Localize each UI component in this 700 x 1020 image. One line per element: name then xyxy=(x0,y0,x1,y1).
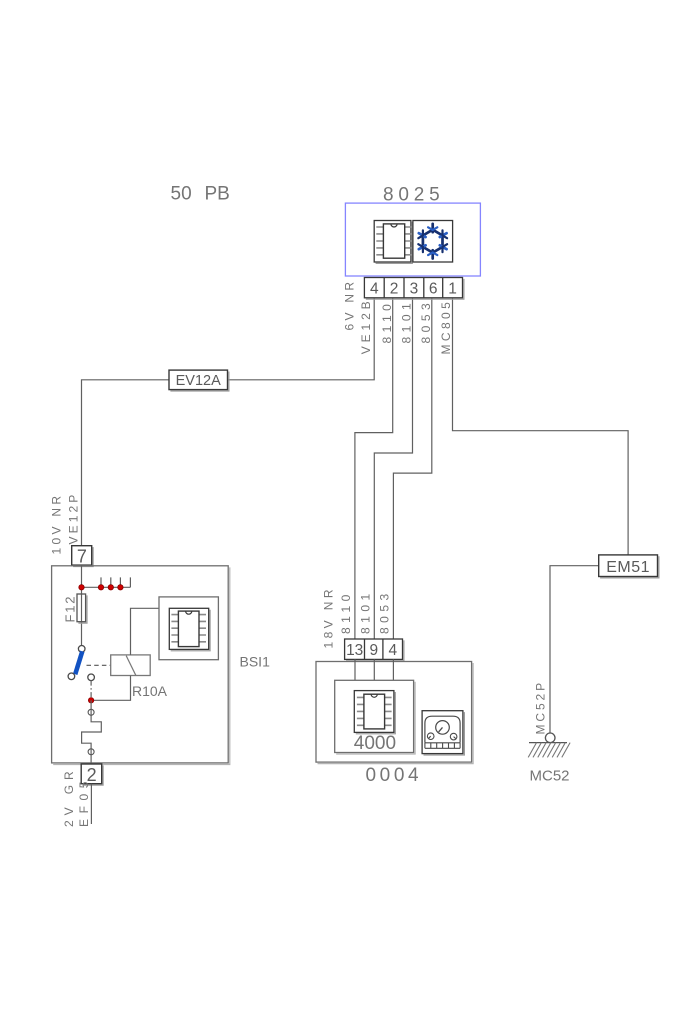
BSI1 pin 2 box xyxy=(81,764,102,784)
switch contact top xyxy=(78,646,85,653)
connector row of 0004 shadow xyxy=(346,640,404,660)
0004 inner module box xyxy=(335,680,414,752)
svg-text:1: 1 xyxy=(448,281,457,298)
connector row of 0004 (pins 13 9 4) xyxy=(345,639,403,659)
svg-text:13: 13 xyxy=(346,642,363,659)
svg-text:MC52P: MC52P xyxy=(533,680,547,735)
relay R10A diagonal xyxy=(126,656,136,676)
wire relay top to BSI IC xyxy=(131,608,160,655)
connector row 0004 dividers xyxy=(365,639,383,659)
svg-text:2: 2 xyxy=(390,281,399,298)
IC U1 of 8025: container box xyxy=(374,221,411,263)
wire MC52P from EM51 to ground MC52 xyxy=(550,566,599,733)
inline connector EV12A box xyxy=(169,370,228,390)
svg-text:2V GR: 2V GR xyxy=(62,766,76,827)
connector row dividers xyxy=(384,278,443,298)
gauge needle xyxy=(439,727,443,732)
svg-text:8053: 8053 xyxy=(419,299,433,344)
svg-text:MC52: MC52 xyxy=(530,767,570,784)
wire 8053 from 8025 pin 6 to 0004 pin 4 xyxy=(393,298,431,639)
svg-text:0004: 0004 xyxy=(366,765,423,786)
snowflake icon box (air conditioning) xyxy=(413,221,453,263)
BSI IC pins right xyxy=(199,615,206,642)
BSI IC notch xyxy=(186,611,192,614)
IC U1 of 8025: pins right xyxy=(405,227,412,255)
IC U1 of 8025: body xyxy=(383,224,404,258)
wire MC805 from 8025 pin 1 to EM51 xyxy=(453,298,629,555)
junction dot at pin7 feed xyxy=(79,585,84,590)
svg-text:7: 7 xyxy=(77,546,87,566)
wire relay bottom to junction xyxy=(91,676,130,701)
svg-text:VE12P: VE12P xyxy=(66,492,80,545)
svg-text:6: 6 xyxy=(429,281,438,298)
switch contact bottom left xyxy=(68,673,75,680)
junction dot rail tap 1 xyxy=(98,585,103,590)
BSI1 box xyxy=(52,566,229,763)
svg-text:4: 4 xyxy=(388,642,397,659)
svg-text:EF05: EF05 xyxy=(77,776,91,827)
BSI IC body xyxy=(178,611,199,647)
svg-text:3: 3 xyxy=(410,281,419,298)
BSI1 box shadow xyxy=(53,567,230,764)
0004 IC body xyxy=(364,694,385,729)
junction dot switch/relay xyxy=(88,698,93,703)
small dial left needle xyxy=(429,736,431,738)
svg-text:MC805: MC805 xyxy=(439,299,453,355)
svg-text:9: 9 xyxy=(369,642,378,659)
wire from pin 7 through fuse to switch xyxy=(81,565,83,646)
svg-text:8101: 8101 xyxy=(400,299,414,344)
svg-text:BSI1: BSI1 xyxy=(240,653,271,669)
small dial right xyxy=(450,733,457,740)
snowflake icon xyxy=(418,224,447,259)
BSI IC outer box xyxy=(159,597,218,660)
inline connector EM51 box xyxy=(599,555,658,577)
svg-text:VE12B: VE12B xyxy=(359,297,373,354)
splice symbol upper xyxy=(88,709,94,715)
instrument cluster icon box shadow xyxy=(424,712,465,755)
0004 IC pins right xyxy=(385,697,392,725)
IC U1 of 8025: notch xyxy=(391,224,397,227)
svg-text:6V NR: 6V NR xyxy=(343,279,357,331)
svg-text:F12: F12 xyxy=(62,595,77,623)
BSI1 pin 7 box shadow xyxy=(73,547,93,566)
instrument cluster gauge dial xyxy=(436,721,450,735)
inline connector EV12A shadow xyxy=(170,372,229,392)
connector row of 8025 shadow xyxy=(366,279,464,299)
junction dot rail tap 3 xyxy=(118,585,123,590)
component 8025 outline (blue box) xyxy=(345,203,480,276)
dashed actuation link to relay xyxy=(87,664,111,666)
ground MC52 hatching xyxy=(528,743,570,758)
wire from 8025 pin 4 to EV12A to BSI1 pin 7 xyxy=(82,298,375,546)
IC U1 of 8025: pins left xyxy=(376,227,383,255)
fuse F12 body xyxy=(77,594,86,622)
inline connector EM51 box shadow xyxy=(600,556,659,578)
junction dot rail tap 2 xyxy=(108,585,113,590)
instrument cluster dashboard outline xyxy=(425,716,460,742)
dash-dot wire from switch output xyxy=(90,681,92,701)
component 0004 box xyxy=(316,662,472,763)
BSI IC container shadow xyxy=(171,610,210,651)
wire 8101 from 8025 pin 3 to 0004 pin 9 xyxy=(374,298,412,639)
ground MC52 baseline xyxy=(529,742,567,744)
power rail inside BSI1 xyxy=(82,577,131,587)
svg-text:R10A: R10A xyxy=(132,683,168,699)
svg-text:8110: 8110 xyxy=(380,300,394,344)
wire 8110 from 8025 pin 2 to 0004 pin 13 xyxy=(355,298,393,639)
BSI IC container box xyxy=(169,608,208,649)
0004 IC pins left xyxy=(357,697,364,725)
switch output contact xyxy=(88,674,95,681)
BSI1 pin 7 box xyxy=(72,546,92,565)
connector row of 8025 (pins 4 2 3 6 1) xyxy=(364,278,462,298)
small dial right needle xyxy=(454,737,456,739)
svg-text:8025: 8025 xyxy=(383,184,444,205)
splice symbol lower xyxy=(88,749,94,755)
crank wire to pin 2 xyxy=(82,700,102,764)
0004 inner module box shadow xyxy=(336,682,415,754)
svg-text:4000: 4000 xyxy=(354,733,396,754)
fuse F12 shadow xyxy=(78,595,87,623)
svg-text:8101: 8101 xyxy=(359,589,373,634)
svg-text:8053: 8053 xyxy=(378,589,392,634)
BSI1 pin 2 box shadow xyxy=(83,765,104,785)
BSI IC pins left xyxy=(171,615,178,642)
ground MC52 terminal circle xyxy=(545,733,555,743)
wire below pin 2 xyxy=(90,784,92,824)
instrument cluster icon box xyxy=(422,711,463,754)
svg-text:10V NR: 10V NR xyxy=(50,493,64,555)
svg-text:EM51: EM51 xyxy=(606,559,650,576)
component 0004 box shadow xyxy=(318,663,474,764)
switch blade (blue) xyxy=(75,651,82,674)
svg-text:4: 4 xyxy=(370,281,379,298)
relay R10A coil box xyxy=(111,655,151,676)
0004 IC container shadow xyxy=(356,692,396,734)
svg-text:8110: 8110 xyxy=(339,590,353,634)
svg-text:EV12A: EV12A xyxy=(176,373,221,389)
IC U1 of 8025: container shadow xyxy=(376,222,413,264)
small dial left xyxy=(427,733,434,740)
instrument cluster tick bar xyxy=(425,743,460,749)
wires from 0004 pins into module xyxy=(355,659,393,680)
svg-text:18V NR: 18V NR xyxy=(321,586,335,648)
0004 IC container box xyxy=(354,691,394,733)
0004 IC notch xyxy=(371,694,377,697)
